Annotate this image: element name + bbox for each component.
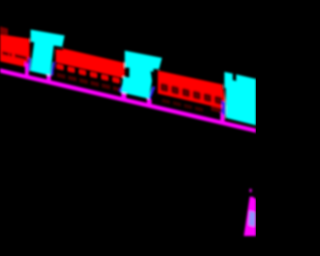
faint lower dashes B [46, 70, 54, 76]
dark marks right of C [211, 106, 226, 114]
pillar 3 cyan block [224, 72, 256, 126]
pillar 2 left leg [121, 92, 126, 100]
dark window dashes A [2, 51, 8, 56]
blue stripe pillar3 left [222, 101, 225, 115]
red vehicle segment C (right) [158, 69, 228, 115]
wedge [244, 197, 256, 236]
pillar 1 right leg [47, 74, 51, 82]
faint far building top-left [0, 27, 8, 36]
pillar 1 left leg [25, 62, 29, 77]
blue stripe pillar2 right [148, 85, 155, 100]
pillar 2 cyan T [125, 49, 162, 76]
pillar 2 right leg [147, 98, 152, 107]
wheel bumps B [56, 63, 64, 70]
red vehicle segment A (far left) [0, 32, 30, 68]
blue stripe pillar1 right [50, 61, 55, 76]
dark window dashes C [160, 83, 168, 93]
blue stripe pillar2 left [119, 79, 127, 94]
ego / bottom right magenta wedge (screen coords) [244, 189, 256, 236]
pillar 1 cyan T [31, 27, 65, 49]
red vehicle segment B (middle) [56, 47, 125, 79]
pillar 3 leg [220, 113, 224, 124]
magenta fence line [0, 68, 256, 132]
blue stripe in wedge [249, 211, 256, 227]
blue stripe pillar1 left [28, 58, 32, 72]
